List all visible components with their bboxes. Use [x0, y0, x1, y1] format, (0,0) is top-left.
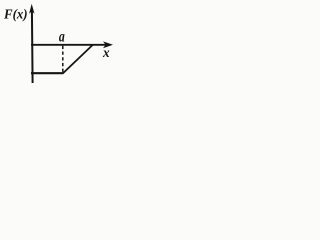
- y-axis arrowhead: [29, 4, 34, 14]
- function horizontal segment (negative level): [31, 72, 63, 74]
- x-axis arrowhead: [103, 41, 113, 48]
- svg-text:x: x: [102, 46, 110, 61]
- function diagonal segment rising to x-axis: [63, 45, 93, 74]
- y-axis (vertical axis line): [31, 9, 34, 83]
- svg-text:F(x): F(x): [3, 6, 28, 21]
- svg-text:a: a: [59, 29, 65, 46]
- x-axis (horizontal axis line): [31, 44, 107, 46]
- background: [0, 0, 122, 90]
- dashed drop line at x=a: [62, 46, 64, 73]
